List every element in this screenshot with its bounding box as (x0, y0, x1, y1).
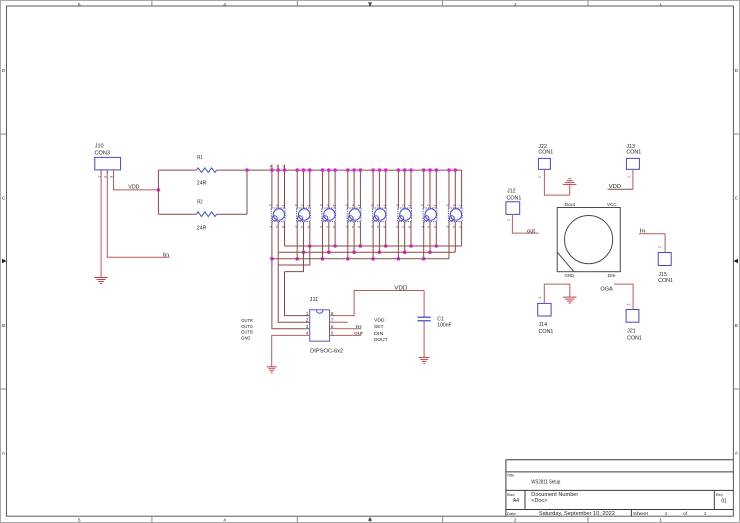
svg-text:3: 3 (320, 204, 324, 206)
svg-text:1: 1 (459, 204, 463, 206)
svg-text:1: 1 (408, 204, 412, 206)
wire J11 pin8 VDD (330, 291, 425, 316)
svg-text:DIPSOC-6x2: DIPSOC-6x2 (310, 348, 343, 354)
svg-text:4: 4 (396, 226, 400, 228)
svg-text:B: B (735, 323, 738, 328)
svg-text:CON1: CON1 (538, 150, 553, 156)
junctions U3 bottom buses (321, 244, 337, 260)
U6 bottom pin wires (398, 222, 411, 259)
connector J22 body (538, 158, 550, 169)
ground above J22 wire (563, 183, 577, 185)
svg-text:4: 4 (421, 226, 425, 228)
svg-text:1: 1 (665, 511, 668, 516)
junctions U6 bottom buses (397, 244, 413, 260)
svg-text:1: 1 (282, 204, 286, 206)
ground right of J14 (563, 296, 577, 298)
svg-text:GND: GND (565, 273, 575, 278)
resistor R1 (196, 168, 216, 173)
svg-text:2: 2 (402, 204, 406, 206)
U2 top pin numbers 3 2 1 (294, 204, 311, 206)
svg-text:1: 1 (704, 511, 707, 516)
svg-text:1: 1 (538, 297, 542, 299)
wire J14 to ground (544, 284, 570, 303)
U1 top pin numbers 3 2 1 (269, 204, 286, 206)
svg-text:6: 6 (332, 226, 336, 228)
connector J14 body (538, 303, 551, 316)
wire bus DOUT chain (bus1) (285, 245, 462, 247)
connector J12 body (506, 202, 520, 215)
U4 bottom pin wires (348, 222, 361, 259)
VDD power bar (608, 188, 633, 190)
svg-text:5: 5 (402, 226, 406, 228)
LED module U1 body (271, 208, 285, 222)
wire R loop right rail (246, 170, 248, 214)
svg-text:B: B (2, 323, 5, 328)
J10 pin numbers 1 2 3 (97, 176, 113, 178)
svg-text:DIn: DIn (608, 273, 617, 278)
svg-text:J21: J21 (627, 329, 636, 335)
ground below C1 (419, 356, 430, 358)
svg-text:2: 2 (275, 204, 279, 206)
U6 top pin numbers 3 2 1 (396, 204, 413, 206)
svg-text:6: 6 (434, 226, 438, 228)
svg-text:R: R (275, 165, 279, 167)
U3 bottom pin numbers 4 5 6 (320, 226, 337, 228)
U3 bottom pin wires (323, 222, 336, 259)
wire J11 pin7 SET (330, 321, 348, 323)
svg-text:CON1: CON1 (507, 196, 522, 202)
svg-text:5: 5 (351, 226, 355, 228)
svg-text:3: 3 (294, 204, 298, 206)
wire R loop left rail (157, 170, 159, 214)
svg-text:CON3: CON3 (95, 151, 111, 157)
svg-text:3: 3 (446, 204, 450, 206)
U4 top pin numbers 3 2 1 (345, 204, 362, 206)
U8 top pin wires (449, 170, 462, 208)
svg-text:01: 01 (721, 498, 727, 504)
wire J13 to VDD (632, 169, 634, 189)
junctions U6 on VDD rail (397, 168, 413, 172)
wire J22 to ground (544, 169, 569, 195)
svg-text:CON1: CON1 (539, 329, 554, 335)
svg-text:5: 5 (326, 226, 330, 228)
svg-text:5: 5 (301, 226, 305, 228)
svg-text:GND: GND (241, 335, 251, 340)
svg-text:VDD: VDD (374, 317, 385, 322)
svg-text:OGA: OGA (600, 287, 613, 293)
LED module U8 body (448, 208, 462, 222)
svg-text:out: out (354, 330, 363, 336)
svg-text:VDD: VDD (394, 286, 408, 292)
wire J11 pin1 riser and jog to bus2 (285, 272, 310, 316)
wire J11 pin2 riser and jog to bus1 (278, 252, 310, 322)
capacitor C1 (417, 291, 430, 358)
svg-text:J11: J11 (310, 297, 319, 303)
junctions U8 on VDD rail (447, 168, 457, 172)
svg-text:out: out (527, 229, 536, 235)
junctions U2 on VDD rail (295, 168, 311, 172)
svg-text:J15: J15 (658, 272, 667, 278)
svg-text:Rev: Rev (716, 492, 723, 497)
svg-text:B: B (269, 165, 273, 167)
wire J11 pin6 net In (330, 328, 362, 330)
svg-text:J12: J12 (507, 188, 516, 194)
svg-text:SET: SET (374, 324, 384, 329)
svg-text:1: 1 (332, 204, 336, 206)
U2 top pin wires (297, 170, 310, 208)
svg-text:5: 5 (377, 226, 381, 228)
svg-text:5: 5 (453, 226, 457, 228)
svg-text:R2: R2 (197, 200, 203, 206)
wire J12 net out (512, 214, 538, 233)
svg-text:4: 4 (446, 226, 450, 228)
svg-text:In: In (356, 324, 362, 330)
frame row ticks left (1, 134, 7, 389)
svg-text:1: 1 (627, 176, 631, 178)
svg-text:A: A (2, 451, 5, 456)
svg-text:24R: 24R (197, 180, 207, 186)
svg-text:4: 4 (320, 226, 324, 228)
junctions U4 bottom buses (346, 244, 362, 260)
LED module U6 body (398, 208, 412, 222)
U7 top pin numbers 3 2 1 (421, 204, 438, 206)
svg-text:6: 6 (307, 226, 311, 228)
svg-text:R1: R1 (197, 155, 203, 161)
centre mark right (733, 259, 738, 263)
svg-text:OUTR: OUTR (241, 318, 253, 323)
U7 bottom pin numbers 4 5 6 (421, 226, 438, 228)
wire J11 pin4 to ground (272, 335, 310, 366)
LED package D1 outline (557, 208, 620, 272)
wire J10 pin1 to ground (100, 170, 102, 277)
svg-text:5: 5 (427, 226, 431, 228)
junctions U5 bottom buses (371, 244, 387, 260)
svg-text:3: 3 (370, 204, 374, 206)
svg-text:2: 2 (453, 204, 457, 206)
wire J10 pin3 net VDD (114, 170, 159, 190)
wire J15 net In (639, 234, 665, 253)
U2 bottom pin wires (297, 222, 310, 259)
svg-text:1: 1 (538, 176, 542, 178)
U5 top pin wires (373, 170, 386, 208)
U2 bottom pin numbers 4 5 6 (294, 226, 311, 228)
LED module U3 body (322, 208, 336, 222)
LED module U5 body (373, 208, 387, 222)
svg-text:24R: 24R (197, 225, 207, 231)
svg-text:DOUT: DOUT (374, 337, 388, 342)
J11 left pin name labels (241, 318, 253, 340)
wire bus GND (bus3) (272, 258, 449, 260)
U7 bottom pin wires (424, 222, 437, 259)
J11 right pin numbers 8 7 6 5 (331, 311, 334, 336)
svg-text:1: 1 (307, 204, 311, 206)
svg-text:A4: A4 (513, 498, 519, 504)
LED module U2 body (297, 208, 311, 222)
svg-text:6: 6 (383, 226, 387, 228)
svg-text:3: 3 (345, 204, 349, 206)
connector J21 body (626, 310, 639, 323)
svg-text:6: 6 (358, 226, 362, 228)
junction R rail top (245, 168, 249, 172)
svg-text:J14: J14 (539, 322, 548, 328)
wire R2 leads (158, 213, 247, 215)
wire R1 leads (158, 169, 247, 171)
title block frame (506, 460, 734, 517)
U7 top pin wires (424, 170, 437, 208)
centre mark left (2, 259, 7, 263)
svg-text:VCC: VCC (607, 202, 617, 207)
LED module U7 body (423, 208, 437, 222)
ground below J11 (267, 366, 277, 368)
svg-text:100nF: 100nF (437, 322, 451, 328)
svg-text:6: 6 (282, 226, 286, 228)
U8 top pin numbers 3 2 1 (446, 204, 463, 206)
svg-text:Date:: Date: (507, 511, 517, 516)
svg-text:1: 1 (627, 303, 631, 305)
wire J21 net OGA (614, 284, 633, 309)
junctions U7 on VDD rail (422, 168, 438, 172)
ground below J10 (95, 277, 108, 279)
svg-text:4: 4 (345, 226, 349, 228)
junctions U5 on VDD rail (371, 168, 387, 172)
svg-text:6: 6 (459, 226, 463, 228)
svg-text:1: 1 (434, 204, 438, 206)
title block text (507, 472, 727, 517)
svg-text:<Doc>: <Doc> (531, 498, 547, 504)
svg-text:CON1: CON1 (626, 150, 641, 156)
svg-text:2: 2 (351, 204, 355, 206)
tiny net labels above U1 (269, 165, 286, 171)
svg-text:Title: Title (507, 472, 515, 477)
U5 top pin numbers 3 2 1 (370, 204, 387, 206)
junctions U3 on VDD rail (321, 168, 337, 172)
svg-text:3: 3 (396, 204, 400, 206)
wire J11 pin5 net out (330, 334, 362, 336)
svg-text:4: 4 (269, 226, 273, 228)
U6 bottom pin numbers 4 5 6 (396, 226, 413, 228)
svg-text:J10: J10 (95, 144, 104, 150)
svg-text:1: 1 (358, 204, 362, 206)
svg-text:A: A (735, 451, 738, 456)
IC socket J11 body (310, 310, 330, 341)
U4 bottom pin numbers 4 5 6 (345, 226, 362, 228)
svg-text:1: 1 (383, 204, 387, 206)
junctions U7 bottom buses (422, 244, 438, 260)
U1 bottom pin numbers 4 5 6 (269, 226, 286, 228)
connector J10 CON3 (95, 157, 121, 174)
U5 bottom pin wires (373, 222, 386, 259)
svg-text:CON1: CON1 (658, 278, 673, 284)
U5 bottom pin numbers 4 5 6 (370, 226, 387, 228)
svg-text:Size: Size (507, 492, 516, 497)
svg-text:Sheet: Sheet (633, 511, 649, 516)
svg-text:OUTG: OUTG (241, 324, 253, 329)
svg-text:4: 4 (370, 226, 374, 228)
svg-text:2: 2 (301, 204, 305, 206)
resistor R2 (196, 212, 216, 217)
junction VDD at R rail (157, 188, 161, 192)
U4 top pin wires (348, 170, 361, 208)
svg-text:DIN: DIN (374, 331, 384, 336)
frame row ticks right (733, 134, 739, 389)
svg-text:Dout: Dout (565, 202, 576, 207)
connector J13 body (626, 158, 639, 169)
svg-text:Document Number: Document Number (531, 492, 578, 498)
svg-text:6: 6 (408, 226, 412, 228)
svg-text:3: 3 (269, 204, 273, 206)
LED module U4 body (347, 208, 361, 222)
svg-text:3: 3 (421, 204, 425, 206)
U6 top pin wires (398, 170, 411, 208)
centre mark bottom (368, 517, 372, 521)
U8 bottom pin numbers 4 5 6 (446, 226, 463, 228)
centre mark top (368, 2, 372, 6)
U3 top pin wires (323, 170, 336, 208)
svg-text:CON1: CON1 (627, 336, 642, 342)
svg-text:VDD: VDD (609, 184, 622, 190)
connector J15 body (658, 253, 671, 266)
U3 top pin numbers 3 2 1 (320, 204, 337, 206)
junctions U4 on VDD rail (346, 168, 362, 172)
wire J10 pin2 net In (107, 170, 169, 257)
svg-text:In: In (163, 252, 170, 258)
row letters left (2, 68, 6, 456)
wire VDD top rail (247, 169, 462, 171)
J11 right pin name labels (374, 317, 388, 342)
svg-text:1: 1 (658, 246, 662, 248)
row letters right (735, 68, 739, 456)
svg-text:2: 2 (427, 204, 431, 206)
svg-text:OUTB: OUTB (241, 330, 253, 335)
column numbers bottom (78, 517, 663, 522)
svg-text:2: 2 (326, 204, 330, 206)
column numbers top (78, 2, 663, 7)
svg-text:4: 4 (294, 226, 298, 228)
svg-text:2: 2 (377, 204, 381, 206)
wire bus mid (bus2) (278, 251, 455, 253)
junctions U2 bottom buses (295, 244, 311, 260)
junctions U1 on VDD rail (270, 168, 286, 172)
svg-text:5: 5 (275, 226, 279, 228)
svg-text:1: 1 (507, 219, 511, 221)
svg-text:Saturday, September 10, 2022: Saturday, September 10, 2022 (539, 511, 615, 517)
U1 bottom pin wires (278, 222, 284, 253)
frame column ticks bottom (152, 516, 588, 522)
U8 bottom pin wires (449, 222, 462, 259)
frame column ticks top (152, 1, 588, 7)
junction U1 pin4 bus (270, 257, 274, 261)
J11 left pin numbers 1 2 3 4 (306, 311, 309, 336)
wire U1 pin4 to J11 pin3 (272, 222, 310, 329)
svg-text:WS2811 Setup: WS2811 Setup (531, 480, 560, 486)
U1 top pin wires (272, 170, 285, 208)
svg-text:G: G (282, 165, 286, 167)
svg-text:VDD: VDD (128, 185, 140, 191)
